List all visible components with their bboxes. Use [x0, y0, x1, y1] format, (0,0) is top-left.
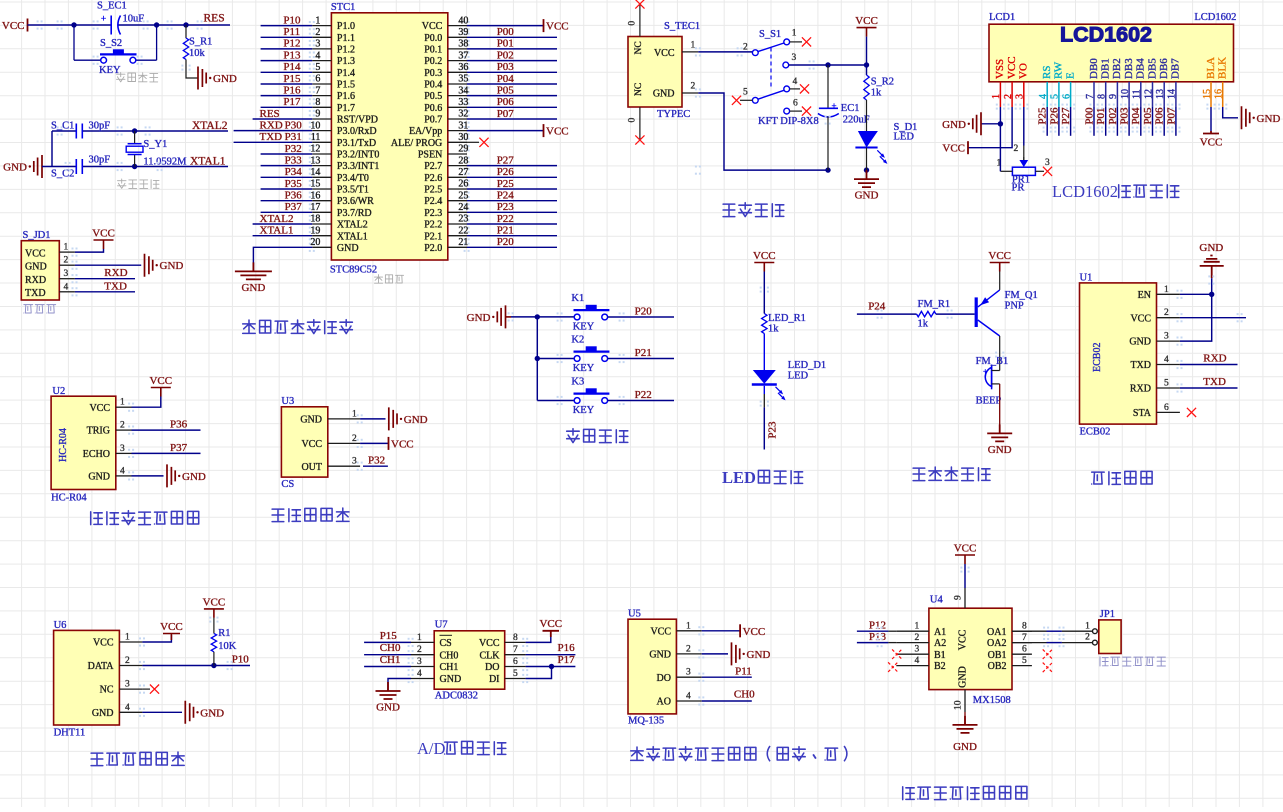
pin 1 CS [411, 633, 452, 649]
wire P12 [857, 630, 889, 632]
no connect pin3 [142, 688, 150, 690]
svg-text:P1.0: P1.0 [337, 21, 355, 32]
wire P06 [467, 106, 557, 108]
svg-text:MX1508: MX1508 [973, 695, 1011, 706]
wire P15 [364, 641, 411, 643]
ground GND (u7) [376, 682, 401, 699]
no connect pin30 [467, 141, 479, 143]
wire lcd pin 6 [1070, 107, 1072, 136]
svg-text:39: 39 [458, 27, 468, 38]
svg-text:RXD: RXD [1203, 353, 1226, 365]
wire pin2 to bottom rail [698, 93, 828, 170]
svg-text:LCD1602: LCD1602 [1052, 182, 1118, 201]
svg-text:PSEN: PSEN [418, 150, 442, 161]
svg-text:6: 6 [1061, 94, 1072, 99]
svg-text:10uF: 10uF [123, 14, 145, 25]
wire pin2 P36 [132, 429, 201, 431]
wire EN junction [1180, 293, 1212, 295]
wire gnd to key bus [506, 316, 512, 318]
svg-text:P23: P23 [497, 201, 515, 213]
svg-text:P23: P23 [767, 421, 779, 439]
pin 12 P3.2/INT0 [310, 144, 379, 161]
svg-text:GND: GND [440, 674, 462, 685]
svg-text:E: E [1064, 72, 1076, 79]
wire buzzer to gnd [999, 384, 1001, 434]
svg-text:DI: DI [489, 674, 500, 685]
svg-text:8: 8 [513, 633, 518, 643]
lcd pin 8 DB1 [1097, 58, 1112, 107]
svg-text:VCC: VCC [149, 375, 172, 387]
capacitor S_EC1 10uF [97, 1, 144, 35]
svg-text:VCC: VCC [1130, 313, 1151, 324]
wire vcc to resistor [763, 272, 765, 314]
pin 3 CH1 [411, 657, 458, 673]
svg-text:7: 7 [315, 85, 320, 96]
svg-text:P25: P25 [497, 178, 515, 190]
svg-text:P20: P20 [635, 305, 653, 317]
wire TXD/P31 row11 [234, 141, 313, 143]
lcd pin 14 DB7 [1167, 58, 1182, 107]
svg-text:6: 6 [513, 657, 518, 667]
svg-text:P07: P07 [497, 108, 515, 120]
svg-text:1: 1 [686, 621, 691, 631]
svg-text:RW: RW [1053, 61, 1065, 79]
power port VCC (u3) [388, 437, 390, 450]
svg-text:10k: 10k [189, 48, 206, 59]
buzzer FM_B1 BEEP [976, 356, 1009, 407]
svg-text:10K: 10K [218, 641, 237, 652]
svg-text:P1.3: P1.3 [337, 56, 355, 67]
pushbutton K3 KEY [571, 376, 609, 416]
svg-text:K2: K2 [571, 334, 584, 345]
svg-text:12: 12 [310, 144, 320, 155]
wire pin1 to VCC [132, 396, 161, 407]
wire lcd pin 10 [1128, 107, 1130, 136]
diode S_D1 LED [855, 100, 917, 170]
pin 5 OB2 [988, 656, 1032, 672]
wire P20 [608, 316, 674, 318]
svg-text:38: 38 [458, 39, 468, 50]
connector S_JD1 body [21, 230, 59, 300]
wire DATA row [142, 665, 250, 667]
wire P13 [857, 642, 889, 644]
svg-text:10: 10 [1120, 89, 1131, 99]
pin 6 OB1 [988, 645, 1032, 661]
pin 9 RST/VPD [312, 109, 378, 126]
pin 0 bottom no-connect [639, 107, 641, 139]
svg-text:P06: P06 [1154, 107, 1166, 125]
svg-text:7: 7 [1085, 94, 1096, 99]
svg-text:2: 2 [125, 656, 130, 666]
svg-text:P32: P32 [368, 454, 385, 466]
wire P00 [467, 36, 557, 38]
crystal S_Y1 11.0592M [126, 128, 187, 169]
svg-text:A1: A1 [934, 627, 946, 638]
pushbutton K1 KEY [571, 293, 609, 333]
wire to K3 [537, 400, 574, 402]
svg-text:P35: P35 [285, 178, 303, 190]
svg-text:XTAL1: XTAL1 [260, 225, 294, 237]
svg-text:P1.4: P1.4 [337, 68, 355, 79]
svg-text:VCC: VCC [743, 626, 766, 638]
pin 4 P1.3 [312, 50, 355, 67]
svg-text:LED_D1: LED_D1 [788, 360, 827, 371]
ground GND (crystal) [34, 155, 42, 178]
svg-text:P1.6: P1.6 [337, 91, 355, 102]
svg-text:P2.7: P2.7 [424, 161, 442, 172]
no connect B1 [892, 649, 902, 659]
svg-text:P24: P24 [497, 190, 515, 202]
pin 2 P1.1 [312, 27, 355, 44]
svg-text:P06: P06 [497, 96, 515, 108]
junction [154, 22, 159, 27]
svg-text:P1.1: P1.1 [337, 33, 355, 44]
svg-text:P22: P22 [635, 389, 652, 401]
svg-text:9: 9 [315, 109, 320, 120]
svg-text:PNP: PNP [1005, 300, 1024, 311]
pin 3 ECHO [83, 444, 132, 460]
svg-text:P30: P30 [285, 119, 303, 131]
svg-text:GND: GND [988, 444, 1012, 456]
svg-text:4: 4 [686, 692, 691, 702]
wire P25 [467, 188, 557, 190]
svg-text:10: 10 [954, 700, 964, 710]
svg-text:LED: LED [788, 371, 809, 382]
svg-text:P17: P17 [558, 654, 576, 666]
svg-text:ALE/ PROG: ALE/ PROG [391, 138, 442, 149]
svg-text:JP1: JP1 [1100, 609, 1115, 620]
svg-text:P1.7: P1.7 [337, 103, 355, 114]
wire P02 [467, 60, 557, 62]
wire VSS to GND [981, 107, 1000, 124]
wire VSS-GND junction to pot pin1 [999, 124, 1001, 172]
svg-text:NC: NC [634, 83, 644, 96]
svg-text:P3.7/RD: P3.7/RD [337, 208, 372, 219]
svg-text:15: 15 [310, 179, 320, 190]
wire P17 [526, 666, 576, 668]
wire P24 to base resistor [857, 313, 917, 315]
svg-text:VCC: VCC [93, 638, 114, 649]
ground GND (u4) [953, 716, 978, 733]
svg-text:S_R1: S_R1 [189, 37, 212, 48]
svg-text:14: 14 [310, 167, 320, 178]
svg-text:TXD: TXD [104, 280, 127, 292]
pin 28 P2.7 [424, 155, 468, 172]
wire pin1 to VCC [142, 635, 171, 642]
lcd pin 16 BLK [1214, 57, 1229, 107]
svg-text:GND: GND [241, 282, 265, 294]
svg-text:+: + [101, 14, 106, 24]
svg-text:P11: P11 [283, 26, 300, 38]
svg-text:P27: P27 [1060, 107, 1072, 125]
pin 1 VCC [650, 621, 701, 637]
svg-text:GND: GND [1257, 113, 1281, 125]
svg-text:BLA: BLA [1205, 57, 1217, 79]
wire lcd pin 13 [1163, 107, 1165, 136]
pin 2 VCC [1130, 308, 1179, 324]
wire P22 [608, 400, 674, 402]
pin 18 XTAL2 [310, 214, 367, 231]
svg-text:RXD: RXD [25, 275, 46, 286]
svg-text:VCC: VCC [1006, 56, 1018, 79]
svg-text:P02: P02 [497, 49, 514, 61]
svg-text:P02: P02 [1107, 108, 1119, 125]
wire P11 [261, 36, 313, 38]
title 蓝牙模块 [1092, 472, 1105, 484]
svg-text:1: 1 [315, 15, 320, 26]
svg-text:TXD: TXD [1130, 360, 1151, 371]
pin 34 P0.5 [424, 85, 468, 102]
svg-text:VCC: VCC [958, 629, 969, 650]
svg-text:3: 3 [125, 680, 130, 690]
wire P05 [467, 95, 557, 97]
wire XTAL1 row19 [253, 235, 313, 237]
svg-text:A2: A2 [934, 638, 946, 649]
svg-text:P12: P12 [869, 620, 886, 632]
svg-text:2: 2 [1003, 94, 1014, 99]
power port VCC (pin31) [543, 124, 545, 137]
ground GND (bt) top [1200, 256, 1224, 279]
wire P32 [261, 153, 313, 155]
pin 0 top no-connect [639, 5, 641, 37]
diode LED_D1 LED [752, 360, 826, 400]
svg-text:11: 11 [1132, 89, 1143, 99]
wire pin4 TXD [75, 291, 135, 293]
svg-text:5: 5 [513, 669, 518, 679]
svg-text:P31: P31 [285, 131, 302, 143]
svg-text:2: 2 [315, 27, 320, 38]
power port VCC (u7) [543, 631, 560, 637]
pin 23 P2.2 [424, 214, 468, 231]
title 直流电机驱动模块 [903, 787, 915, 800]
svg-text:CS: CS [281, 479, 294, 490]
svg-text:10: 10 [310, 120, 320, 131]
lcd pin 4 RS [1038, 66, 1053, 107]
svg-text:3: 3 [915, 645, 920, 655]
wire P03 [467, 71, 557, 73]
wire pin3 P37 [132, 452, 201, 454]
svg-text:3: 3 [1045, 158, 1050, 168]
svg-text:XTAL2: XTAL2 [260, 213, 294, 225]
svg-text:P0.1: P0.1 [424, 45, 442, 56]
wire BLA to VCC [1210, 107, 1212, 131]
svg-text:P0.5: P0.5 [424, 91, 442, 102]
pin 8 P1.7 [312, 97, 355, 114]
wire VCC pin40 [467, 25, 544, 27]
svg-text:14: 14 [1167, 89, 1178, 99]
svg-text:7: 7 [513, 645, 518, 655]
pin 29 PSEN [418, 144, 469, 161]
svg-text:1: 1 [417, 633, 422, 643]
wire OA2 to JP1 [1012, 642, 1047, 644]
svg-text:19: 19 [310, 225, 320, 236]
svg-text:DB3: DB3 [1123, 58, 1135, 79]
svg-text:P22: P22 [497, 213, 514, 225]
title 温湿度传感器 [91, 753, 103, 766]
svg-text:P04: P04 [1130, 107, 1142, 125]
pin 39 P0.0 [424, 27, 468, 44]
svg-text:22: 22 [458, 225, 468, 236]
connector S_TEC1 TYPEC body [628, 21, 700, 120]
svg-text:31: 31 [458, 120, 468, 131]
svg-text:OA2: OA2 [987, 638, 1006, 649]
svg-text:30: 30 [458, 132, 468, 143]
wire pin10 to gnd [964, 712, 966, 725]
svg-text:VCC: VCC [954, 543, 977, 555]
wire base [936, 313, 975, 315]
svg-text:P3.1/TxD: P3.1/TxD [337, 138, 376, 149]
pin 13 P3.3/INT1 [310, 155, 379, 172]
svg-text:17: 17 [310, 202, 320, 213]
pin 4 B2 [896, 656, 945, 672]
svg-text:1: 1 [691, 41, 696, 51]
svg-text:GND: GND [747, 649, 771, 661]
svg-text:STC1: STC1 [331, 2, 356, 13]
wire to K2 [537, 358, 574, 360]
wire P33 [261, 165, 313, 167]
potentiometer PR1 PR [997, 144, 1053, 194]
power port VCC (u4) [955, 555, 975, 564]
svg-text:LED_R1: LED_R1 [768, 313, 806, 324]
pin 14 P3.4/T0 [310, 167, 368, 184]
svg-text:EA/Vpp: EA/Vpp [409, 126, 442, 137]
svg-text:TRIG: TRIG [87, 426, 110, 437]
wire VCC pin8 [526, 634, 551, 642]
svg-text:P2.1: P2.1 [424, 231, 442, 242]
wire pin4 to GND [132, 475, 164, 477]
pin 1 A1 [896, 622, 946, 638]
svg-text:4: 4 [120, 466, 125, 476]
wire pin1 to VCC [75, 249, 104, 252]
pin 24 P2.3 [424, 202, 468, 219]
svg-text:4: 4 [915, 656, 920, 666]
power port VCC (buzzer) [990, 263, 1010, 272]
svg-text:U4: U4 [930, 595, 944, 606]
svg-text:RXD: RXD [104, 267, 127, 279]
pin 8 OA1 [987, 622, 1032, 638]
wire TXD->RXD [1180, 364, 1238, 366]
wire XTAL2 row18 [253, 223, 313, 225]
svg-text:P00: P00 [1083, 107, 1095, 125]
svg-text:CH0: CH0 [380, 642, 401, 654]
wire P26 [467, 176, 557, 178]
svg-text:CS: CS [440, 638, 452, 649]
svg-text:2: 2 [915, 633, 920, 643]
svg-text:VCC: VCC [650, 626, 671, 637]
ground GND (u5) [732, 642, 740, 665]
pin 2 GND stub [682, 92, 698, 94]
svg-text:P05: P05 [497, 84, 515, 96]
svg-text:P0.6: P0.6 [424, 103, 442, 114]
svg-text:RXD: RXD [1130, 384, 1151, 395]
wire lcd pin 12 [1152, 107, 1154, 136]
svg-text:FM_R1: FM_R1 [918, 299, 951, 310]
svg-text:P3.2/INT0: P3.2/INT0 [337, 150, 380, 161]
svg-text:4: 4 [1038, 94, 1049, 99]
ic U1 ECB02 body [1080, 273, 1157, 438]
wire DI to DO [526, 667, 552, 679]
pin 36 P0.3 [424, 62, 468, 79]
pin 15 P3.5/T1 [310, 179, 368, 196]
junction [549, 664, 554, 669]
svg-text:34: 34 [458, 85, 468, 96]
title 测速传感器 [272, 509, 284, 521]
pin 17 P3.7/RD [310, 202, 371, 219]
lcd pin 12 DB5 [1143, 58, 1158, 107]
wire P07 [467, 118, 557, 120]
wire GND pin4 [388, 679, 411, 692]
pin 38 P0.1 [424, 39, 468, 56]
lcd pin 9 DB2 [1108, 58, 1123, 107]
wire GND row20 [253, 247, 312, 271]
wire pin3 P32 [363, 465, 388, 467]
pin 1 VCC [89, 398, 131, 414]
pin 8 VCC [479, 633, 526, 649]
pin 37 P0.2 [424, 50, 468, 67]
svg-text:1k: 1k [918, 318, 929, 329]
svg-text:VCC: VCC [753, 250, 776, 262]
lcd pin 15 BLA [1202, 57, 1217, 107]
lcd pin 6 E [1061, 72, 1076, 107]
svg-text:1: 1 [1085, 621, 1090, 631]
capacitor EC1 220uF electrolytic [818, 65, 870, 170]
lcd pin 11 DB4 [1132, 58, 1147, 107]
pin 1 GND [300, 409, 360, 425]
svg-text:4: 4 [125, 703, 130, 713]
wire P23 [467, 211, 557, 213]
svg-text:P2.5: P2.5 [424, 185, 442, 196]
svg-text:2: 2 [691, 82, 696, 92]
snap marks misc [37, 20, 43, 29]
svg-text:9: 9 [954, 595, 964, 600]
svg-text:KEY: KEY [573, 322, 595, 333]
svg-text:1: 1 [991, 94, 1002, 99]
svg-text:P2.6: P2.6 [424, 173, 442, 184]
svg-text:23: 23 [458, 214, 468, 225]
svg-text:LED: LED [894, 132, 915, 143]
svg-text:GND: GND [958, 666, 969, 688]
wire pin1 to GND [360, 418, 385, 420]
svg-text:RST/VPD: RST/VPD [337, 115, 378, 126]
power port VCC (pullup) [204, 609, 224, 618]
svg-text:GND: GND [92, 708, 114, 719]
pin 26 P2.5 [424, 179, 468, 196]
svg-text:P03: P03 [1119, 107, 1131, 125]
pin 5 RXD [1130, 379, 1180, 395]
svg-text:GND: GND [649, 650, 671, 661]
ic U5 MQ-135 body [628, 609, 676, 727]
label 下载口 [24, 305, 33, 313]
wire P15 [261, 83, 313, 85]
pin 1 stub [59, 251, 75, 253]
svg-text:P03: P03 [497, 61, 515, 73]
svg-text:ECB02: ECB02 [1092, 343, 1103, 372]
wire OA1 to JP1 [1012, 630, 1047, 632]
resistor LED_R1 1k [762, 313, 806, 335]
pin 19 XTAL1 [310, 225, 367, 242]
ground GND (MCU) [235, 262, 272, 279]
ground GND (keys) [497, 305, 505, 328]
svg-text:S_TEC1: S_TEC1 [664, 21, 700, 32]
svg-text:S_EC1: S_EC1 [97, 1, 127, 12]
svg-text:VCC: VCC [160, 621, 183, 633]
svg-text:P26: P26 [497, 166, 515, 178]
svg-text:VCC: VCC [2, 20, 25, 32]
svg-text:KEY: KEY [573, 405, 595, 416]
resistor S_R2 1k [864, 65, 894, 100]
svg-text:S_Y1: S_Y1 [143, 139, 167, 150]
svg-text:P37: P37 [285, 201, 303, 213]
